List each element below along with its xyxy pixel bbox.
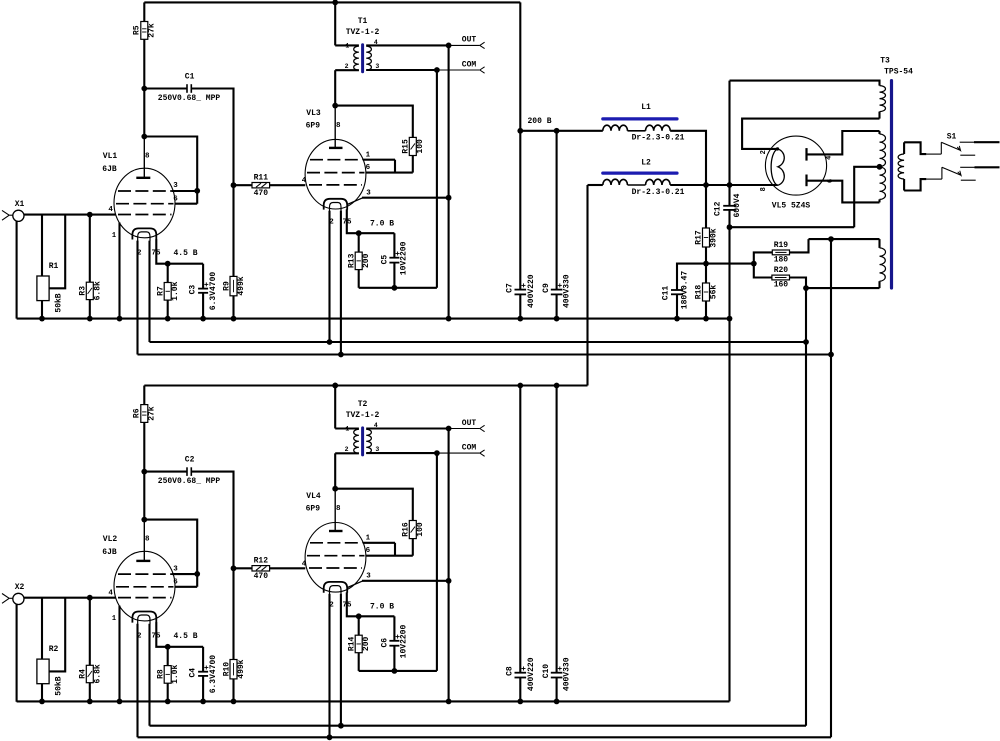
- svg-text:T2: T2: [358, 400, 368, 409]
- svg-text:4.5 В: 4.5 В: [173, 249, 197, 258]
- wire: [143, 472, 145, 520]
- wire: [328, 211, 330, 342]
- svg-text:R7: R7: [157, 286, 166, 296]
- wire: [730, 184, 778, 186]
- svg-text:1.0k: 1.0k: [171, 281, 180, 300]
- svg-text:6.3V4700: 6.3V4700: [209, 272, 218, 311]
- node: [674, 316, 680, 322]
- wire: [806, 287, 880, 289]
- svg-text:C10: C10: [542, 664, 551, 679]
- wire: [358, 653, 360, 671]
- tube VL2 grid g1: [118, 597, 172, 599]
- node plate-VLa: [141, 517, 147, 523]
- svg-text:C5: C5: [380, 255, 389, 265]
- node: [327, 734, 333, 740]
- svg-text:R17: R17: [695, 230, 704, 245]
- node plate-VLb: [332, 103, 338, 109]
- wire: [41, 598, 43, 659]
- node cathode-VLa: [165, 261, 171, 267]
- svg-text:50kB: 50kB: [54, 293, 63, 312]
- node: [165, 699, 171, 705]
- wire: [144, 384, 587, 386]
- wire: [670, 184, 777, 186]
- wire: [232, 679, 234, 702]
- switch S1 pole 2: [926, 178, 942, 180]
- wire: [175, 203, 197, 205]
- wire: [136, 241, 138, 355]
- wire: [904, 142, 926, 154]
- wire: [41, 301, 43, 319]
- wire: [335, 427, 359, 429]
- wire: [144, 1, 520, 3]
- tube VL4 cathode: [324, 582, 348, 593]
- node: [165, 316, 171, 322]
- wire: [363, 159, 395, 161]
- wire: [49, 215, 65, 289]
- wire: [437, 452, 480, 454]
- wire: [167, 683, 169, 702]
- wire: [705, 247, 707, 264]
- wire: [807, 181, 880, 203]
- svg-text:180: 180: [774, 255, 789, 264]
- transformer T3 winding W2 (HV upper): [878, 131, 880, 134]
- svg-text:6: 6: [173, 579, 178, 587]
- wire: [412, 156, 414, 173]
- svg-text:6: 6: [827, 179, 835, 183]
- node fork: [751, 261, 757, 267]
- svg-text:6P9: 6P9: [306, 122, 321, 131]
- wire: [334, 386, 336, 429]
- wire: [335, 452, 359, 454]
- wire: [393, 616, 395, 641]
- choke L1: [603, 117, 677, 120]
- svg-text:R2: R2: [49, 645, 59, 654]
- svg-text:390k: 390k: [710, 228, 719, 247]
- capacitor C5: [389, 257, 399, 259]
- svg-text:8: 8: [760, 187, 768, 191]
- node cathode-VLb: [356, 230, 362, 236]
- svg-text:R19: R19: [774, 241, 789, 250]
- node: [200, 699, 206, 705]
- svg-text:OUT: OUT: [462, 36, 477, 45]
- wire: [437, 69, 480, 71]
- svg-text:L2: L2: [641, 158, 651, 167]
- resistor R12: [252, 566, 270, 571]
- wire: [24, 214, 90, 216]
- node: [327, 339, 333, 345]
- wire: [366, 69, 437, 71]
- wire: [366, 427, 448, 429]
- node: [392, 285, 398, 291]
- wire: [359, 670, 437, 672]
- svg-text:2: 2: [760, 150, 768, 154]
- wire: [191, 472, 233, 569]
- svg-text:7.0 В: 7.0 В: [370, 603, 394, 612]
- wire: [449, 44, 480, 46]
- svg-text:COM: COM: [462, 443, 477, 452]
- node: [703, 316, 709, 322]
- wire: [677, 264, 706, 290]
- svg-text:1.0k: 1.0k: [171, 664, 180, 683]
- wire: [234, 184, 253, 186]
- wire: [172, 190, 197, 192]
- svg-text:6.8k: 6.8k: [94, 281, 103, 300]
- wire: [807, 131, 880, 154]
- node: [703, 182, 709, 188]
- svg-text:1: 1: [112, 232, 116, 240]
- capacitor C1: [186, 84, 188, 93]
- wire: [362, 197, 449, 199]
- wire: [340, 594, 342, 726]
- wire: [24, 597, 90, 599]
- tube VL4 envelope: [305, 523, 366, 593]
- wire: [347, 209, 395, 233]
- wire: [138, 736, 832, 738]
- svg-text:8: 8: [145, 535, 150, 543]
- tube VL4 anode: [334, 489, 336, 531]
- wire: [728, 227, 730, 701]
- node: [231, 316, 237, 322]
- wire: [347, 581, 363, 588]
- choke L2: [603, 172, 677, 175]
- svg-text:56k: 56k: [710, 285, 719, 300]
- resistor R20: [772, 275, 790, 280]
- wire: [809, 238, 880, 240]
- svg-text:470: 470: [254, 572, 269, 581]
- wire: [449, 428, 480, 430]
- node: [446, 316, 452, 322]
- svg-text:3: 3: [375, 63, 379, 70]
- wire: [90, 214, 116, 216]
- node: [803, 339, 809, 345]
- tube VL1 envelope: [114, 168, 175, 238]
- svg-text:Dr-2.3-0.21: Dr-2.3-0.21: [632, 188, 685, 197]
- svg-text:3: 3: [366, 189, 371, 197]
- connector OUT: [480, 42, 485, 48]
- transformer T3 winding W1 (5V): [730, 81, 880, 86]
- svg-text:250V0.68_ MPP: 250V0.68_ MPP: [158, 94, 221, 103]
- wire: [90, 597, 116, 599]
- wire: [89, 215, 91, 283]
- tube VL4 grid g1: [309, 567, 362, 569]
- connector X2: [13, 593, 24, 604]
- svg-text:R9: R9: [223, 281, 232, 291]
- node: [727, 316, 733, 322]
- svg-text:C7: C7: [506, 283, 515, 293]
- svg-text:400V220: 400V220: [527, 657, 536, 691]
- svg-text:6P9: 6P9: [306, 505, 321, 514]
- svg-text:T1: T1: [358, 17, 368, 26]
- wire: [144, 87, 187, 89]
- wire: [41, 684, 43, 702]
- transformer T2 primary: [354, 429, 359, 453]
- svg-text:VL1: VL1: [103, 152, 118, 161]
- node plate-VLa: [141, 134, 147, 140]
- node plate-VLb: [332, 486, 338, 492]
- node: [117, 316, 123, 322]
- svg-text:C6: C6: [380, 638, 389, 648]
- svg-text:400V330: 400V330: [563, 657, 572, 691]
- wire: [17, 318, 730, 320]
- svg-text:8: 8: [336, 122, 341, 130]
- svg-text:6: 6: [366, 547, 371, 555]
- svg-text:S1: S1: [947, 132, 957, 141]
- wire: [148, 241, 150, 342]
- svg-text:180V0.47: 180V0.47: [681, 271, 690, 310]
- node: [727, 224, 733, 230]
- wire: [556, 131, 558, 290]
- svg-text:L1: L1: [641, 103, 651, 112]
- node: [332, 383, 338, 389]
- svg-text:100: 100: [416, 139, 425, 154]
- capacitor C12: [723, 205, 736, 207]
- tube VL3 envelope: [305, 139, 366, 209]
- capacitor C9: [551, 289, 563, 291]
- resistor R8: [164, 666, 171, 684]
- capacitor C4: [198, 671, 208, 673]
- capacitor C7: [515, 289, 527, 291]
- node: [117, 699, 123, 705]
- svg-text:4: 4: [826, 156, 834, 160]
- node: [231, 699, 237, 705]
- wire: [904, 179, 926, 190]
- svg-text:7.0 В: 7.0 В: [370, 219, 394, 228]
- resistor R10: [230, 660, 237, 679]
- wire: [358, 270, 360, 288]
- svg-text:2: 2: [345, 446, 349, 453]
- wire: [202, 647, 204, 672]
- tube VL5 envelope: [765, 136, 826, 195]
- svg-text:499k: 499k: [237, 659, 246, 678]
- svg-text:OUT: OUT: [462, 419, 477, 428]
- svg-text:1: 1: [112, 615, 116, 623]
- node: [338, 352, 344, 358]
- tube VL1 grid g2: [116, 203, 174, 205]
- capacitor C10: [551, 672, 563, 674]
- svg-text:50kB: 50kB: [54, 676, 63, 695]
- wire: [143, 386, 145, 405]
- svg-text:C1: C1: [185, 72, 195, 81]
- svg-text:R20: R20: [774, 266, 789, 275]
- wire: [359, 287, 437, 289]
- svg-text:R5: R5: [133, 25, 142, 35]
- wire: [340, 211, 342, 355]
- node grid-VLb: [231, 182, 237, 188]
- svg-text:R4: R4: [79, 669, 88, 679]
- wire: [790, 278, 807, 289]
- wire: [148, 624, 150, 726]
- svg-text:4: 4: [108, 206, 113, 214]
- svg-text:4.5 В: 4.5 В: [173, 632, 197, 641]
- tube VL1 anode: [143, 137, 145, 178]
- wire: [89, 300, 91, 319]
- svg-text:C8: C8: [506, 666, 515, 676]
- wire: [754, 252, 773, 263]
- wire: [143, 39, 145, 88]
- connector COM: [480, 67, 485, 73]
- node: [517, 316, 523, 322]
- connector OUT: [480, 425, 485, 431]
- svg-text:R18: R18: [695, 285, 704, 300]
- node cathode-VLa: [165, 644, 171, 650]
- wire: [156, 622, 203, 647]
- wire: [670, 131, 706, 185]
- wire: [335, 106, 413, 138]
- wire: [138, 353, 832, 355]
- transformer T2 core: [361, 428, 364, 455]
- svg-text:27k: 27k: [147, 406, 156, 421]
- wire: [41, 215, 43, 276]
- wire: [742, 119, 879, 149]
- node 200V: [517, 128, 523, 134]
- connector X1: [13, 210, 24, 221]
- wire: [586, 185, 588, 386]
- tube VL3 grid g3: [310, 159, 363, 161]
- wire: [167, 264, 169, 283]
- svg-text:X1: X1: [15, 200, 25, 209]
- node: [392, 668, 398, 674]
- transformer T1 secondary: [366, 46, 371, 70]
- svg-text:4: 4: [302, 177, 307, 185]
- wire: [167, 300, 169, 319]
- capacitor C8: [515, 672, 527, 674]
- node: [332, 0, 338, 5]
- wire: [448, 45, 450, 318]
- svg-text:8: 8: [145, 152, 150, 160]
- wire: [519, 386, 521, 673]
- wire: [191, 89, 233, 186]
- wire: [394, 543, 396, 556]
- svg-text:1: 1: [366, 534, 371, 542]
- svg-text:3: 3: [173, 182, 178, 190]
- wire: [436, 70, 438, 288]
- node grid-VLa: [87, 595, 93, 601]
- svg-text:75: 75: [151, 632, 161, 640]
- svg-text:200 В: 200 В: [527, 117, 551, 126]
- svg-text:200: 200: [362, 253, 371, 268]
- wire: [728, 81, 730, 185]
- wire: [270, 567, 306, 569]
- svg-text:R10: R10: [223, 662, 232, 677]
- wire: [335, 44, 359, 46]
- node divider: [703, 261, 709, 267]
- svg-text:6JB: 6JB: [102, 548, 117, 557]
- resistor R5: [141, 22, 148, 40]
- node: [87, 316, 93, 322]
- wire: [519, 294, 521, 318]
- svg-text:3: 3: [366, 572, 371, 580]
- resistor R7: [164, 283, 171, 301]
- svg-text:75: 75: [342, 219, 352, 227]
- node: [338, 723, 344, 729]
- svg-text:200: 200: [362, 637, 371, 652]
- tube VL2 grid g2: [116, 586, 174, 588]
- node COM: [434, 450, 440, 456]
- node OUT: [446, 43, 452, 49]
- wire: [520, 130, 603, 132]
- svg-text:R16: R16: [402, 522, 411, 537]
- capacitor C6: [389, 640, 399, 642]
- tube VL4 grid g3: [310, 542, 363, 544]
- svg-text:4: 4: [302, 560, 307, 568]
- wire: [519, 678, 521, 702]
- svg-text:VL3: VL3: [306, 109, 321, 118]
- svg-text:R12: R12: [254, 557, 269, 566]
- wire: [519, 2, 521, 289]
- switch S1 pole 1: [926, 153, 941, 155]
- wire: [118, 223, 120, 319]
- wire: [448, 429, 450, 702]
- svg-text:TVZ-1-2: TVZ-1-2: [346, 411, 380, 420]
- svg-text:6.3V4700: 6.3V4700: [209, 655, 218, 694]
- wire: [232, 296, 234, 319]
- svg-text:600V4: 600V4: [733, 193, 742, 217]
- resistor R17: [703, 228, 710, 247]
- svg-text:R15: R15: [402, 139, 411, 154]
- capacitor C11: [671, 289, 683, 291]
- wire: [366, 44, 448, 46]
- wire: [412, 539, 414, 556]
- wire: [16, 604, 18, 702]
- svg-text:2: 2: [329, 602, 334, 610]
- svg-text:VL4: VL4: [306, 492, 321, 501]
- wire: [335, 489, 413, 521]
- wire: [728, 210, 730, 227]
- wire: [150, 725, 807, 727]
- svg-text:75: 75: [151, 249, 161, 257]
- tube VL4 grid g2: [307, 555, 365, 557]
- resistor R16: [409, 521, 416, 539]
- transformer T3 primary (mains): [903, 142, 905, 154]
- svg-text:75: 75: [342, 602, 352, 610]
- svg-text:R14: R14: [348, 637, 357, 652]
- wire: [234, 567, 253, 569]
- svg-text:T3: T3: [880, 56, 890, 65]
- wire: [144, 520, 197, 587]
- resistor R6: [141, 405, 148, 423]
- svg-text:160: 160: [774, 281, 789, 290]
- wire: [89, 598, 91, 666]
- resistor R9: [230, 276, 237, 295]
- svg-text:2: 2: [329, 219, 334, 227]
- wire: [705, 301, 707, 319]
- wire: [144, 471, 187, 473]
- resistor R11: [252, 183, 270, 188]
- node: [446, 699, 452, 705]
- node: [39, 316, 45, 322]
- wire: [335, 69, 359, 71]
- wire: [362, 580, 449, 582]
- capacitor C3: [198, 288, 208, 290]
- tube VL3 cathode: [324, 199, 348, 210]
- node: [332, 383, 338, 389]
- wire: [118, 606, 120, 702]
- tube VL2 envelope: [114, 551, 175, 621]
- wire: [556, 678, 558, 702]
- wire: [156, 239, 203, 264]
- resistor R18: [703, 283, 710, 301]
- wire: [805, 288, 807, 726]
- wire: [393, 263, 395, 288]
- node: [803, 285, 809, 291]
- wire: [144, 137, 197, 204]
- wire: [854, 167, 879, 227]
- wire: [334, 70, 336, 105]
- svg-text:X2: X2: [15, 583, 25, 592]
- svg-text:C2: C2: [185, 455, 195, 464]
- wire: [366, 172, 413, 174]
- node pin3-VLa: [194, 188, 200, 194]
